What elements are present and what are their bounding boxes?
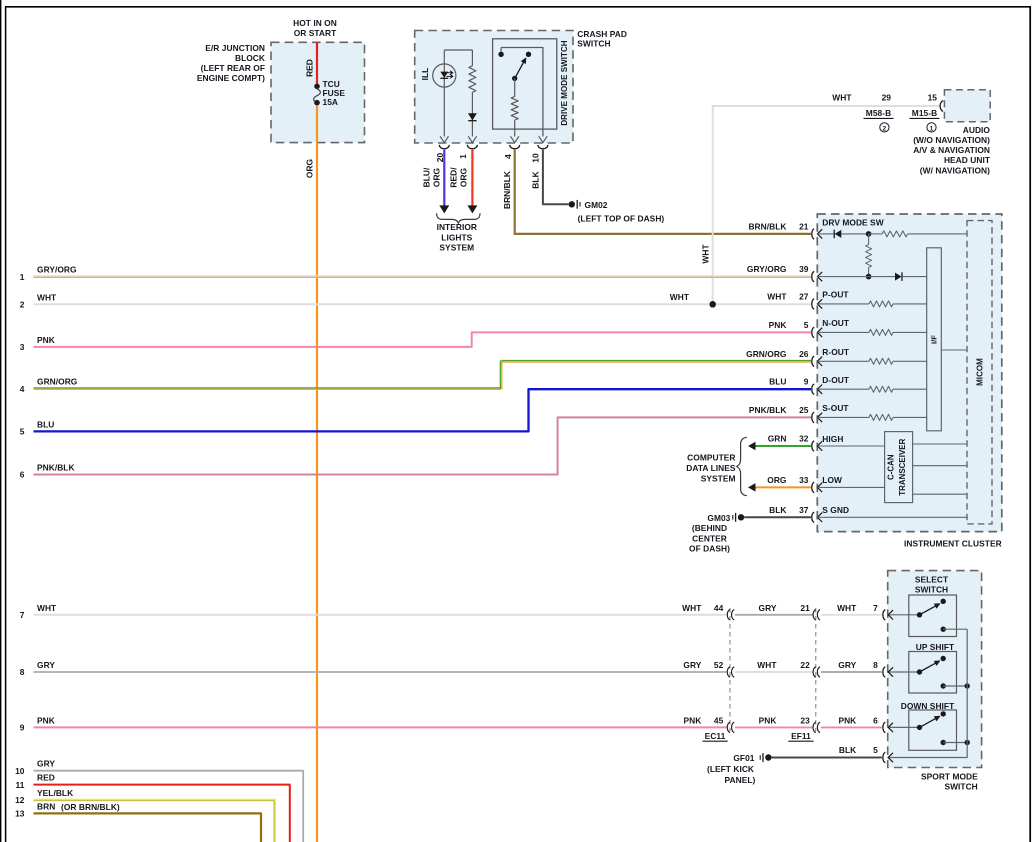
svg-text:(OR BRN/BLK): (OR BRN/BLK) (61, 802, 120, 812)
junction dot WHT (710, 301, 716, 307)
crash pad switch box (415, 31, 573, 144)
wire RED fuse feed (316, 42, 318, 83)
ground GF01 (765, 754, 771, 760)
wire row 6 right PNK (821, 726, 882, 728)
pin 7 connector sport switch (883, 610, 885, 620)
svg-text:PNK/BLK: PNK/BLK (37, 463, 75, 473)
svg-text:33: 33 (799, 475, 809, 485)
svg-text:15A: 15A (323, 97, 339, 107)
svg-text:BLK: BLK (531, 171, 541, 188)
svg-text:4: 4 (503, 154, 513, 159)
svg-text:GRY: GRY (838, 660, 856, 670)
connector row 8 at EC11 (727, 667, 734, 677)
wire 8 GRY left (34, 671, 727, 673)
switch UP SHIFT (888, 671, 919, 673)
svg-text:M58-B: M58-B (866, 108, 891, 118)
pin exit arrow x=514.7 (511, 136, 519, 142)
svg-text:39: 39 (799, 264, 809, 274)
junction dot pin 39 (866, 274, 872, 280)
svg-text:4: 4 (20, 384, 25, 394)
svg-text:PANEL): PANEL) (725, 775, 756, 785)
svg-text:37: 37 (799, 505, 809, 515)
svg-text:1: 1 (458, 154, 468, 159)
resistor pin 27 (817, 303, 869, 305)
svg-text:7: 7 (873, 603, 878, 613)
svg-text:(LEFT KICK: (LEFT KICK (707, 764, 754, 774)
svg-text:WHT: WHT (682, 603, 702, 613)
wire row 8 right GRY (821, 671, 882, 673)
svg-text:DRIVE MODE SWITCH: DRIVE MODE SWITCH (560, 40, 569, 125)
svg-text:45: 45 (714, 716, 724, 726)
ground GM02 (569, 201, 575, 207)
svg-text:GRN/ORG: GRN/ORG (37, 377, 77, 387)
svg-text:SWITCH: SWITCH (577, 39, 610, 49)
wire row 6 mid PNK (735, 726, 812, 728)
svg-text:HOT IN ON: HOT IN ON (293, 18, 337, 28)
switch box DOWN SHIFT (909, 710, 957, 750)
resistor illumination (471, 50, 473, 66)
svg-text:(LEFT TOP OF DASH): (LEFT TOP OF DASH) (578, 214, 665, 224)
svg-text:DRV MODE SW: DRV MODE SW (822, 218, 883, 228)
svg-text:COMPUTER: COMPUTER (687, 453, 735, 463)
svg-text:PNK: PNK (769, 320, 787, 330)
wire pin 21 internal (817, 233, 833, 235)
pin 32 connector (812, 441, 814, 451)
connector line EC11 (729, 608, 731, 732)
svg-text:A/V & NAVIGATION: A/V & NAVIGATION (913, 145, 990, 155)
svg-text:CRASH PAD: CRASH PAD (577, 29, 627, 39)
wire RED/ORG (471, 150, 473, 206)
switch drive mode (501, 48, 543, 137)
wire LED branch vertical (443, 50, 445, 137)
svg-text:5: 5 (873, 745, 878, 755)
svg-text:12: 12 (15, 795, 25, 805)
svg-text:GRY/ORG: GRY/ORG (747, 264, 787, 274)
svg-text:ORG: ORG (432, 168, 442, 187)
svg-text:21: 21 (800, 603, 810, 613)
wire 5 BLU (34, 389, 812, 431)
E/R junction block box (271, 42, 365, 142)
pin exit connector x=542.9 (538, 145, 548, 149)
svg-text:DATA LINES: DATA LINES (686, 463, 736, 473)
pin 21 connector (812, 229, 814, 239)
arrow GRN (748, 442, 756, 451)
svg-text:RED: RED (37, 773, 55, 783)
wires C-CAN to MICOM (913, 443, 967, 445)
pin 27 connector (812, 299, 814, 309)
svg-text:PNK: PNK (838, 716, 856, 726)
svg-text:SYSTEM: SYSTEM (439, 242, 474, 252)
svg-text:PNK: PNK (37, 335, 55, 345)
pin 39 connector (812, 271, 814, 281)
brace interior lights (437, 213, 480, 223)
svg-text:ORG: ORG (305, 159, 315, 178)
svg-text:WHT: WHT (757, 660, 777, 670)
wire pin 37 internal (817, 516, 967, 518)
diode pin 21 (833, 230, 835, 239)
junction dot WHT wire2 (710, 301, 716, 307)
svg-text:BLU: BLU (769, 377, 786, 387)
wire pin 32 internal (817, 445, 884, 447)
svg-text:27: 27 (799, 291, 809, 301)
svg-text:44: 44 (714, 603, 724, 613)
wire BLK GM03 (744, 516, 811, 518)
svg-text:GRY: GRY (37, 660, 55, 670)
wire 10 GRY (34, 771, 304, 842)
svg-text:13: 13 (15, 809, 25, 819)
svg-text:GRY: GRY (37, 759, 55, 769)
svg-text:BLK: BLK (769, 505, 786, 515)
audio head unit box (944, 90, 990, 122)
arrow interior lights left (439, 205, 449, 213)
svg-text:5: 5 (804, 320, 809, 330)
wire WHT audio feed (713, 106, 940, 304)
svg-text:OF DASH): OF DASH) (689, 544, 730, 554)
fuse TCU FUSE 15A (314, 84, 320, 90)
wire 3 PNK (34, 332, 812, 347)
wire row 7 right WHT (821, 614, 882, 616)
svg-text:MICOM: MICOM (975, 358, 984, 386)
wire row 8 mid WHT (735, 671, 812, 673)
svg-text:TRANSCEIVER: TRANSCEIVER (898, 438, 907, 495)
drive mode switch inner box (493, 39, 557, 129)
wire BLU/ORG (443, 150, 445, 206)
svg-text:GRN: GRN (768, 434, 787, 444)
svg-text:ORG: ORG (459, 168, 469, 187)
wire 9 PNK left (34, 726, 727, 728)
svg-text:I/F: I/F (929, 335, 938, 344)
resistor pin 25 (817, 416, 869, 418)
svg-text:ILL: ILL (420, 68, 430, 81)
switch box SELECT (909, 595, 957, 637)
pin exit arrow x=542.9 (539, 136, 547, 142)
svg-text:SYSTEM: SYSTEM (701, 473, 736, 483)
wire row 7 mid GRY (735, 614, 812, 616)
svg-text:WHT: WHT (832, 93, 852, 103)
switch box UP SHIFT (909, 652, 957, 694)
wire 11 RED (34, 785, 290, 842)
junction dot bus down (965, 740, 970, 745)
svg-text:LIGHTS: LIGHTS (441, 232, 472, 242)
svg-text:ENGINE COMPT): ENGINE COMPT) (197, 73, 265, 83)
svg-text:WHT: WHT (837, 603, 857, 613)
pin exit arrow x=444.3 (440, 136, 448, 142)
pin 5 connector (812, 327, 814, 337)
svg-text:10: 10 (531, 153, 541, 163)
svg-text:D-OUT: D-OUT (822, 375, 850, 385)
svg-text:RED: RED (305, 59, 315, 77)
sport mode switch box (888, 571, 982, 768)
svg-text:21: 21 (799, 222, 809, 232)
svg-text:11: 11 (16, 780, 25, 790)
svg-text:P-OUT: P-OUT (822, 290, 849, 300)
svg-text:BLOCK: BLOCK (235, 53, 265, 63)
svg-text:9: 9 (804, 377, 809, 387)
svg-text:15: 15 (928, 93, 938, 103)
svg-text:HEAD UNIT: HEAD UNIT (944, 155, 991, 165)
arrow interior lights right (467, 205, 477, 213)
svg-text:SWITCH: SWITCH (944, 782, 977, 792)
pin 25 connector (812, 412, 814, 422)
svg-text:2: 2 (883, 125, 887, 132)
svg-text:GF01: GF01 (733, 753, 754, 763)
svg-text:SWITCH: SWITCH (915, 584, 948, 594)
svg-text:5: 5 (20, 427, 25, 437)
switch DOWN SHIFT (888, 726, 919, 728)
svg-text:OR START: OR START (294, 28, 337, 38)
pin 6 connector sport switch (883, 722, 885, 732)
svg-text:1: 1 (930, 125, 934, 132)
resistor pin 5 (817, 331, 869, 333)
svg-text:CENTER: CENTER (692, 533, 727, 543)
svg-text:GRY: GRY (683, 660, 701, 670)
resistor pin 26 (817, 360, 869, 362)
wire ORG data (755, 486, 811, 488)
wire 4 GRN/ORG (34, 387, 501, 389)
connector row 7 at EF11 (813, 610, 820, 620)
resistor pin 9 (817, 388, 869, 390)
connector row 6 at EF11 (813, 722, 820, 732)
wire 2 WHT (34, 303, 812, 305)
svg-text:M15-B: M15-B (912, 108, 937, 118)
svg-text:9: 9 (20, 723, 25, 733)
connector arc audio (940, 101, 943, 112)
wire LED top link (444, 49, 472, 51)
wire 12 YEL/BLK (34, 800, 275, 842)
pin exit connector x=472.4 (467, 145, 477, 149)
resistor between pins 21 and 39 (868, 234, 870, 245)
svg-text:BLU: BLU (37, 419, 54, 429)
svg-text:6: 6 (873, 716, 878, 726)
svg-text:C-CAN: C-CAN (886, 454, 895, 480)
C-CAN transceiver box (885, 432, 913, 503)
svg-text:PNK: PNK (759, 716, 777, 726)
svg-text:26: 26 (799, 349, 809, 359)
pin exit connector x=444.3 (439, 145, 449, 149)
diode illumination (471, 92, 473, 136)
resistor drive mode switch (514, 78, 516, 96)
connector row 8 at EF11 (813, 667, 820, 677)
diode pin 39 (895, 273, 902, 281)
switch DOWN SHIFT bottom contact (941, 740, 946, 745)
svg-text:GRY/ORG: GRY/ORG (37, 265, 77, 275)
pin 9 connector (812, 384, 814, 394)
ground GM03 (738, 514, 744, 520)
svg-text:8: 8 (873, 660, 878, 670)
pin 26 connector (812, 356, 814, 366)
svg-text:UP SHIFT: UP SHIFT (916, 642, 955, 652)
svg-text:EF11: EF11 (791, 731, 811, 741)
pin exit connector x=514.7 (510, 145, 520, 149)
wire 6 PNK/BLK (34, 417, 812, 474)
svg-text:BRN/BLK: BRN/BLK (748, 222, 786, 232)
MICOM box (967, 221, 992, 524)
svg-text:52: 52 (714, 660, 724, 670)
pin exit arrow x=472.4 (468, 136, 476, 142)
LED ILL (433, 64, 456, 87)
svg-text:PNK: PNK (684, 716, 702, 726)
pin 37 connector (812, 512, 814, 522)
svg-text:S GND: S GND (822, 505, 849, 515)
svg-text:BRN: BRN (37, 801, 55, 811)
svg-text:E/R JUNCTION: E/R JUNCTION (205, 43, 265, 53)
svg-text:HIGH: HIGH (822, 434, 843, 444)
svg-text:RED/: RED/ (449, 167, 459, 188)
svg-text:PNK/BLK: PNK/BLK (749, 405, 787, 415)
wire BLK to GM02 (543, 150, 569, 205)
svg-text:BRN/BLK: BRN/BLK (502, 171, 512, 209)
connector row 7 at EC11 (727, 610, 734, 620)
svg-text:R-OUT: R-OUT (822, 347, 850, 357)
svg-text:(W/ NAVIGATION): (W/ NAVIGATION) (920, 165, 990, 175)
svg-text:29: 29 (882, 93, 892, 103)
svg-text:GM02: GM02 (585, 200, 608, 210)
svg-text:ORG: ORG (767, 475, 786, 485)
instrument cluster box (817, 214, 1002, 532)
svg-text:WHT: WHT (670, 292, 690, 302)
switch SELECT (888, 614, 919, 616)
wire BLK GF01 (772, 757, 882, 759)
svg-text:23: 23 (800, 716, 810, 726)
wire I/F to MICOM (941, 349, 967, 351)
svg-text:GRY: GRY (759, 603, 777, 613)
connector row 6 at EC11 (727, 722, 734, 732)
svg-text:22: 22 (800, 660, 810, 670)
I/F box (927, 248, 942, 431)
svg-text:32: 32 (799, 434, 809, 444)
svg-text:(W/O NAVIGATION): (W/O NAVIGATION) (913, 135, 990, 145)
svg-text:N-OUT: N-OUT (822, 318, 850, 328)
resistor pin 21 (869, 233, 883, 235)
svg-text:WHT: WHT (701, 244, 711, 264)
wire pin 33 internal (817, 486, 884, 488)
switch SELECT bottom contact (941, 627, 946, 632)
wire 13 BRN (34, 813, 262, 842)
svg-text:EC11: EC11 (705, 731, 726, 741)
svg-text:GM03: GM03 (707, 513, 730, 523)
connector line EF11 (815, 608, 817, 732)
wire BRN/BLK pin4 to cluster pin 21 (515, 150, 811, 234)
wire 7 WHT left (34, 614, 727, 616)
svg-text:8: 8 (20, 667, 25, 677)
svg-text:2: 2 (20, 300, 25, 310)
svg-text:6: 6 (20, 470, 25, 480)
svg-text:LOW: LOW (822, 475, 842, 485)
pin 33 connector (812, 482, 814, 492)
svg-text:SPORT MODE: SPORT MODE (921, 772, 978, 782)
svg-text:GRN/ORG: GRN/ORG (746, 349, 786, 359)
svg-text:PNK: PNK (37, 715, 55, 725)
svg-text:WHT: WHT (37, 292, 57, 302)
svg-text:(LEFT REAR OF: (LEFT REAR OF (201, 63, 265, 73)
svg-text:BLK: BLK (839, 745, 856, 755)
svg-text:WHT: WHT (767, 291, 787, 301)
svg-text:YEL/BLK: YEL/BLK (37, 788, 73, 798)
junction dot pin 21 (866, 231, 872, 237)
brace computer data lines (737, 437, 747, 495)
junction dot bus up (965, 683, 970, 688)
pin 5 connector sport switch (883, 752, 885, 762)
svg-text:3: 3 (20, 342, 25, 352)
svg-text:10: 10 (15, 766, 25, 776)
svg-text:AUDIO: AUDIO (963, 125, 991, 135)
switch UP SHIFT bottom contact (941, 683, 946, 688)
wire pin 39 internal (817, 276, 895, 278)
wire ORG vertical (316, 105, 318, 842)
wire ground bus (888, 629, 968, 757)
svg-text:S-OUT: S-OUT (822, 403, 849, 413)
svg-text:1: 1 (20, 272, 25, 282)
pin 8 connector sport switch (883, 667, 885, 677)
svg-text:25: 25 (799, 405, 809, 415)
svg-text:DOWN SHIFT: DOWN SHIFT (901, 701, 955, 711)
svg-text:WHT: WHT (37, 603, 57, 613)
svg-text:INTERIOR: INTERIOR (437, 222, 477, 232)
svg-text:(BEHIND: (BEHIND (692, 523, 727, 533)
svg-text:SELECT: SELECT (915, 575, 949, 585)
svg-text:BLU/: BLU/ (422, 167, 432, 187)
wire 1 GRY/ORG (34, 275, 812, 277)
arrow ORG (748, 483, 756, 492)
wire GRN (755, 445, 811, 447)
svg-text:7: 7 (20, 610, 25, 620)
svg-text:INSTRUMENT CLUSTER: INSTRUMENT CLUSTER (904, 538, 1002, 548)
